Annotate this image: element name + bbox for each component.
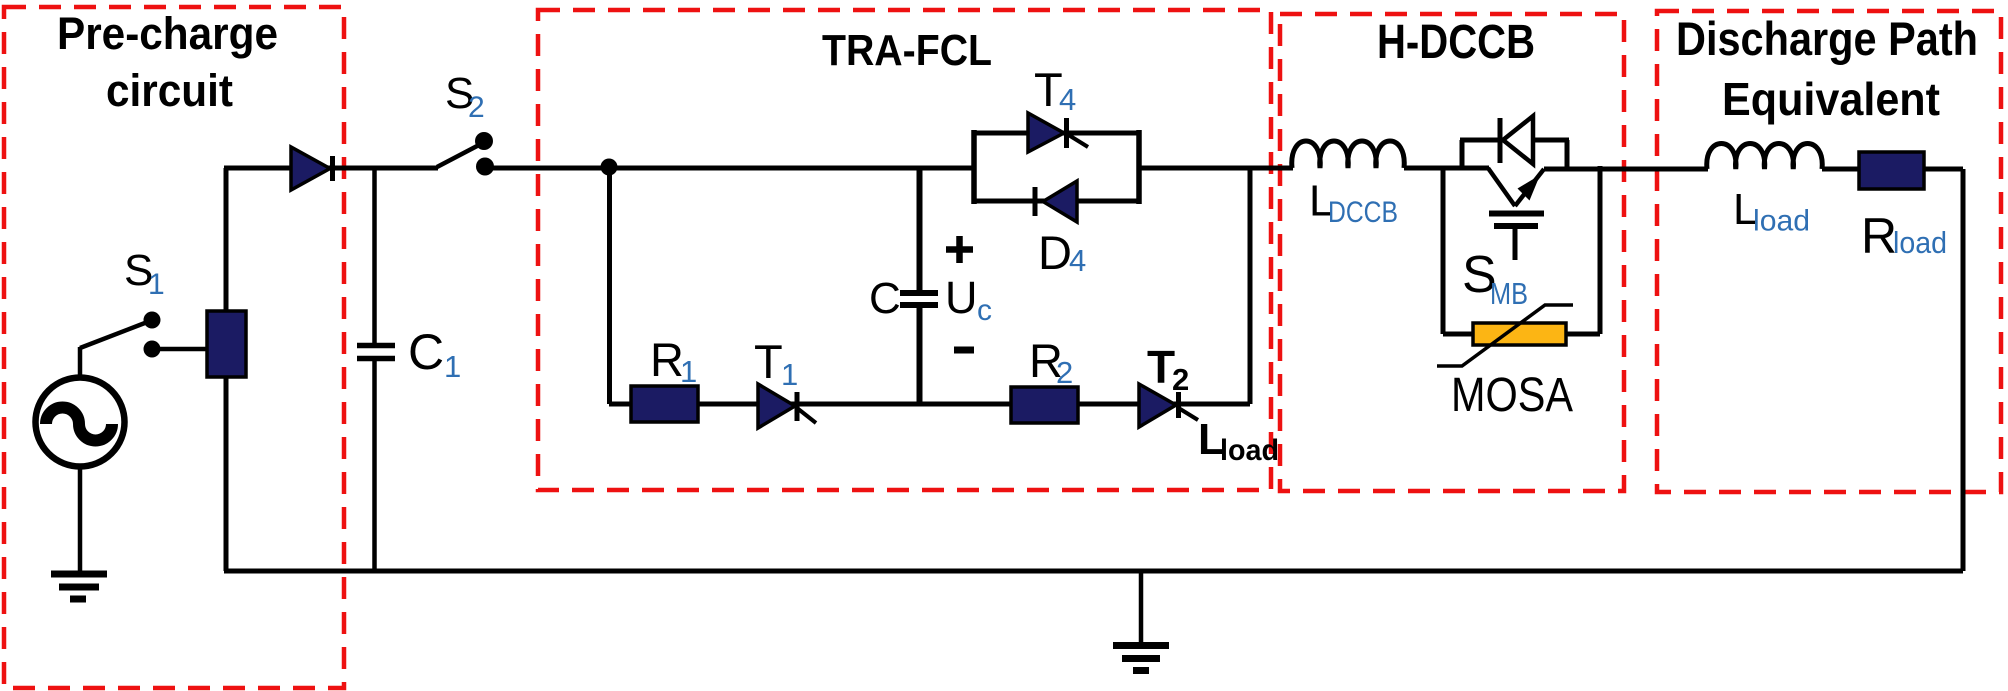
- svg-text:1: 1: [148, 268, 165, 301]
- box: Discharge Path Equivalent: [1657, 11, 2001, 492]
- AC source G1: [36, 378, 125, 467]
- svg-text:circuit: circuit: [106, 65, 233, 116]
- ground: main (bottom center): [1113, 571, 1169, 671]
- svg-text:c: c: [977, 294, 992, 327]
- wire: MOSA right branch: [1598, 166, 1603, 334]
- svg-text:MB: MB: [1490, 276, 1528, 311]
- svg-text:C: C: [408, 324, 444, 380]
- wire: left branch down to R1: [607, 168, 612, 404]
- diode (antiparallel, unfilled): [1503, 116, 1533, 164]
- svg-text:4: 4: [1069, 243, 1086, 278]
- wire: top rail left (corner to S2): [224, 166, 438, 171]
- svg-text:2: 2: [1172, 362, 1189, 397]
- box: Pre-charge circuit: [4, 7, 344, 688]
- svg-text:1: 1: [444, 349, 461, 384]
- wire: AC source top stub: [78, 347, 83, 377]
- svg-text:T: T: [1147, 341, 1175, 393]
- resistor R_load: [1859, 152, 1924, 189]
- svg-text:Pre-charge: Pre-charge: [57, 8, 278, 59]
- svg-text:load: load: [1893, 225, 1947, 260]
- resistor R2: [1011, 387, 1078, 423]
- resistor R pre-charge: [207, 311, 246, 377]
- wire: R_load to right riser: [1924, 167, 1963, 172]
- svg-text:4: 4: [1059, 82, 1076, 117]
- ground: AC source: [51, 574, 107, 599]
- svg-text:load: load: [1220, 434, 1279, 467]
- svg-text:2: 2: [1056, 355, 1073, 390]
- thyristor T1: [758, 384, 795, 428]
- wire: L_load to R_load: [1822, 167, 1861, 172]
- wire: top rail (T4 block to L_DCCB): [1139, 166, 1293, 171]
- label minus: [954, 347, 974, 354]
- wire: right riser: [1961, 169, 1966, 571]
- thyristor T2: [1139, 384, 1176, 427]
- switch S_MB (GCT symbol): [1488, 168, 1515, 206]
- wire: top rail (S2 to T4 block): [486, 166, 976, 171]
- wire: MOSA row: [1443, 332, 1600, 337]
- capacitor C1 branch: [372, 168, 377, 344]
- thyristor T4: [1028, 113, 1064, 152]
- wire: L_DCCB to S_MB: [1404, 166, 1489, 171]
- diode D4: [1043, 181, 1077, 222]
- svg-text:1: 1: [680, 354, 697, 389]
- svg-text:D: D: [1038, 226, 1072, 279]
- wire: MOSA left branch: [1441, 166, 1446, 334]
- svg-text:load: load: [1753, 205, 1810, 238]
- diode D pre-charge: [291, 147, 330, 190]
- switch S1 contacts: [144, 312, 161, 329]
- svg-text:R: R: [650, 333, 684, 386]
- wire: T2 riser: [1248, 166, 1253, 404]
- wire: bottom rail: [224, 569, 1963, 574]
- switch S1 blade: [80, 321, 150, 348]
- resistor R1: [631, 386, 698, 422]
- svg-text:Equivalent: Equivalent: [1722, 73, 1940, 125]
- box: H-DCCB: [1280, 14, 1624, 491]
- wire: TRA-FCL bottom row: [609, 402, 1250, 407]
- varistor MOSA: [1473, 323, 1566, 345]
- svg-text:2: 2: [468, 91, 485, 124]
- svg-text:H-DCCB: H-DCCB: [1377, 16, 1535, 69]
- wire: top rail (S_MB to L_load): [1544, 167, 1708, 172]
- node: TRA-FCL input junction: [601, 159, 618, 176]
- svg-text:R: R: [1861, 208, 1897, 264]
- inductor L_load: [1707, 144, 1822, 170]
- wire: AC source bottom stub: [78, 467, 83, 573]
- box: TRA-FCL: [538, 10, 1271, 490]
- capacitor C branch: [917, 168, 923, 291]
- svg-text:1: 1: [781, 357, 798, 392]
- svg-text:MOSA: MOSA: [1451, 369, 1573, 422]
- label +: [946, 236, 973, 263]
- switch S2 blade: [437, 145, 479, 167]
- svg-text:T: T: [754, 335, 783, 388]
- svg-text:U: U: [945, 272, 978, 323]
- svg-text:DCCB: DCCB: [1328, 196, 1398, 229]
- svg-text:Discharge Path: Discharge Path: [1676, 12, 1978, 65]
- antiparallel diode branch over S_MB: [1460, 140, 1465, 168]
- svg-text:C: C: [869, 274, 901, 323]
- switch S2 contacts: [475, 132, 493, 150]
- thyristor T4/diode D4 parallel block frame: [971, 130, 977, 204]
- wire: S1 to R pre-charge: [152, 347, 210, 352]
- wire: pre-charge vertical leg: [224, 168, 229, 571]
- svg-text:TRA-FCL: TRA-FCL: [822, 26, 992, 75]
- inductor L_DCCB: [1292, 141, 1404, 168]
